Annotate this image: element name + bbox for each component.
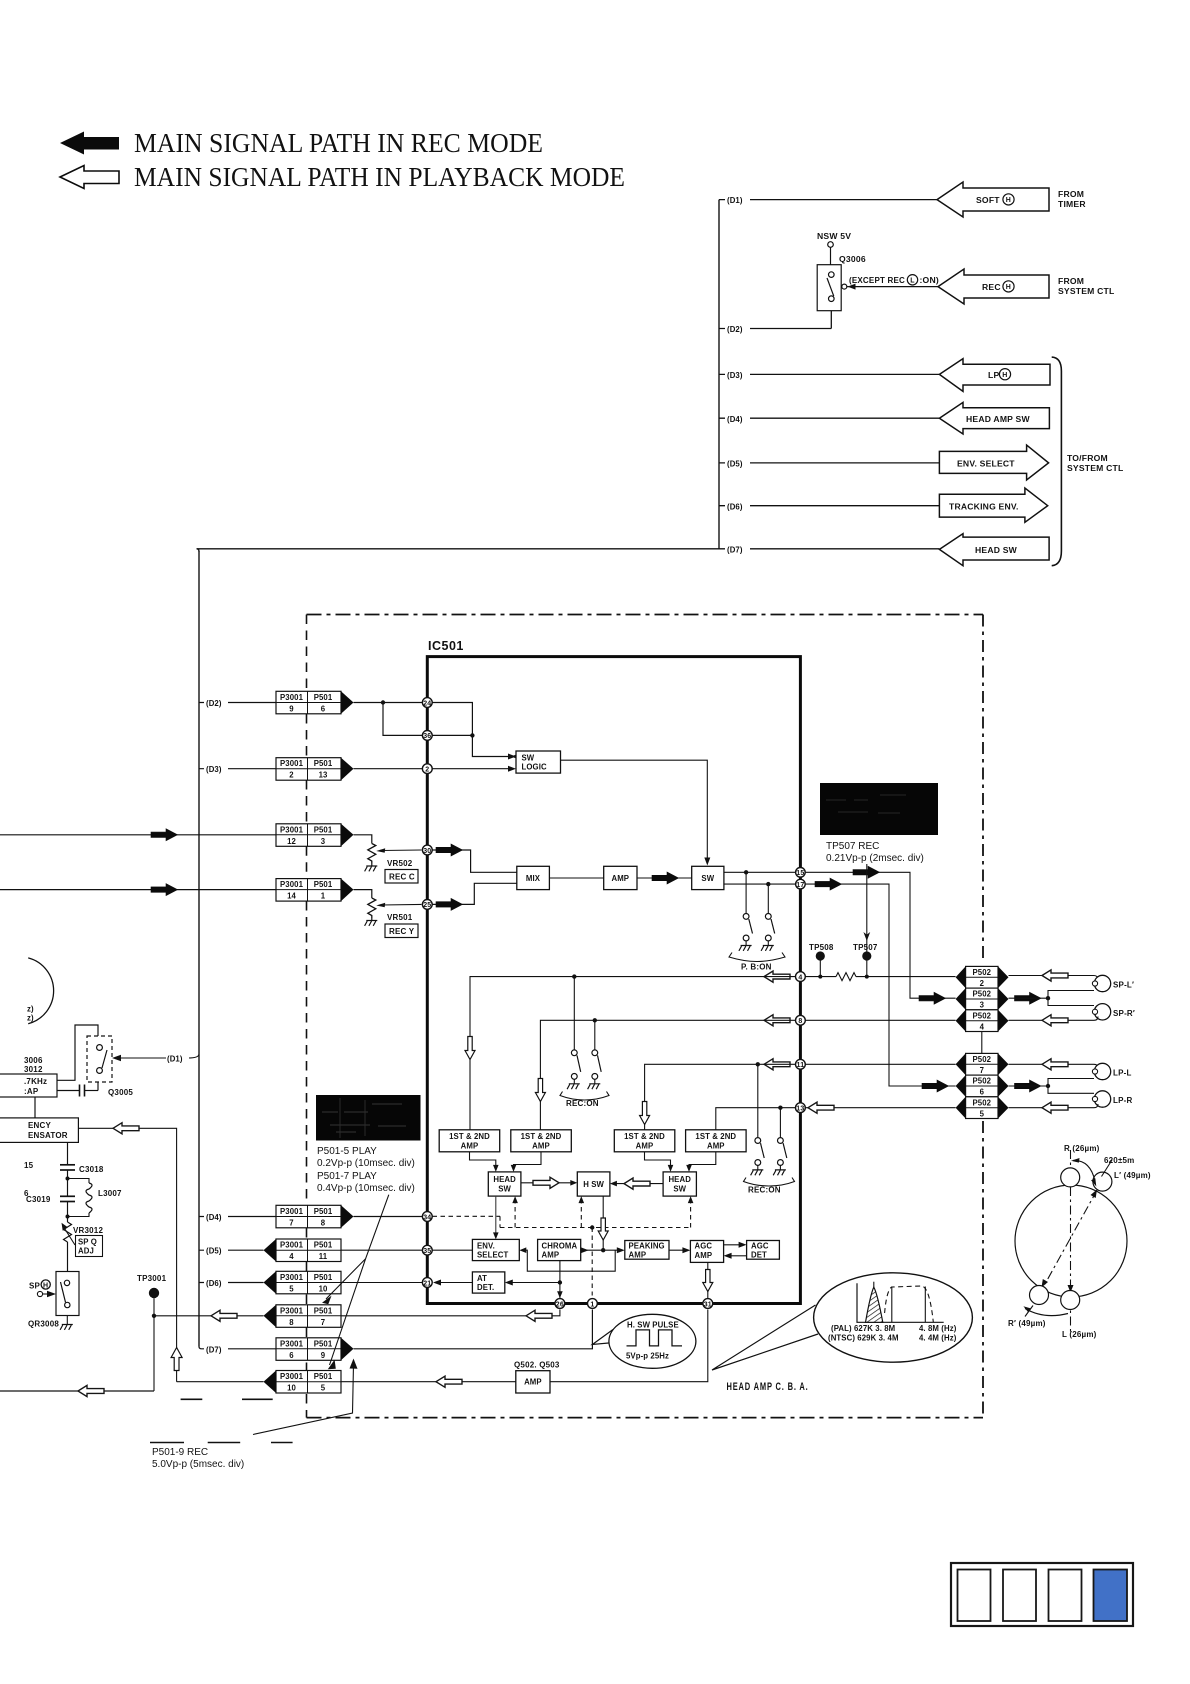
partial bubble left edge [28, 958, 53, 1024]
pin 30 [422, 845, 432, 855]
svg-text:(D1): (D1) [727, 196, 743, 205]
svg-text:1: 1 [590, 1301, 594, 1308]
junction rec switch 2b [778, 1106, 782, 1110]
playback arrow compensator wire [113, 1123, 139, 1134]
svg-text:PEAKING: PEAKING [629, 1242, 665, 1251]
block AGC AMP [690, 1241, 723, 1263]
block frequency compensator [0, 1118, 78, 1143]
board box right edge [982, 615, 984, 963]
playback arrow on TP3001 wire [211, 1310, 237, 1321]
dashed net pin34 [433, 1201, 691, 1296]
svg-text:1ST & 2ND: 1ST & 2ND [521, 1132, 562, 1141]
block ENV. SELECT [472, 1239, 519, 1260]
svg-text:P3001: P3001 [280, 1372, 304, 1381]
bracket P.B:ON [729, 953, 785, 962]
svg-text:P3001: P3001 [280, 825, 304, 834]
wire connector to pin1 [354, 1310, 593, 1349]
svg-text:P501-9 REC: P501-9 REC [152, 1447, 208, 1458]
node D1 label [725, 193, 750, 205]
svg-text:12: 12 [287, 837, 296, 846]
photo P501 play [316, 1095, 421, 1141]
svg-text:AMP: AMP [611, 874, 629, 883]
svg-text:L′ (49µm): L′ (49µm) [1114, 1171, 1151, 1180]
svg-text:Q502. Q503: Q502. Q503 [514, 1361, 560, 1370]
variable resistor VR3012 [62, 1222, 104, 1271]
svg-text:SELECT: SELECT [477, 1251, 508, 1260]
rec arrow after pin25 [436, 898, 463, 910]
svg-text:AMP: AMP [461, 1141, 479, 1150]
svg-text:5: 5 [980, 1109, 985, 1118]
connector P502-7 [956, 1053, 1009, 1075]
connector P3001-2 / P501-13 [276, 758, 354, 781]
svg-text:TP507 REC: TP507 REC [826, 841, 879, 852]
svg-text:(NTSC) 629K 3. 4M: (NTSC) 629K 3. 4M [828, 1334, 899, 1343]
svg-text:FROM: FROM [1058, 276, 1084, 286]
wire P502-3 split to heads [1009, 991, 1095, 1006]
pin 2 [422, 764, 432, 774]
svg-text:(D2): (D2) [727, 325, 743, 334]
wire chroma rec in (left edge) [0, 834, 276, 836]
svg-text:H: H [1006, 284, 1011, 291]
svg-text:Q3005: Q3005 [108, 1088, 133, 1097]
svg-text:C3018: C3018 [79, 1165, 104, 1174]
svg-text:P501: P501 [314, 1339, 333, 1348]
svg-text:TRACKING ENV.: TRACKING ENV. [949, 502, 1019, 512]
wire pin11 interior to amp3 [645, 1064, 796, 1130]
svg-text:1ST & 2ND: 1ST & 2ND [624, 1132, 665, 1141]
svg-text:P502: P502 [972, 1077, 991, 1086]
svg-text:620±5m: 620±5m [1104, 1156, 1135, 1165]
svg-text:z): z) [27, 1005, 34, 1014]
svg-text:5.0Vp-p (5msec. div): 5.0Vp-p (5msec. div) [152, 1459, 244, 1470]
wire connector to VR502 [354, 835, 372, 844]
svg-text:(D6): (D6) [206, 1279, 222, 1288]
rec arrow after pin30 [436, 844, 463, 856]
signal arrow HEAD AMP SW (left) [939, 402, 1049, 434]
connector P502-5 [956, 1097, 1009, 1119]
wire D2 row [719, 311, 831, 329]
svg-text:P3001: P3001 [280, 1241, 304, 1250]
svg-text:SP-R′: SP-R′ [1113, 1009, 1135, 1018]
variable resistor VR501 [365, 898, 413, 926]
svg-text:P. B:ON: P. B:ON [741, 963, 772, 972]
capacitor C3018 [60, 1142, 104, 1195]
svg-text:TIMER: TIMER [1058, 199, 1086, 209]
wire trap to Q3005 upper [57, 1025, 98, 1080]
svg-text:ENCY: ENCY [28, 1121, 51, 1130]
svg-text:(D7): (D7) [727, 546, 743, 555]
svg-text:LP: LP [988, 370, 999, 380]
svg-text:7: 7 [980, 1066, 984, 1075]
svg-text:REC:ON: REC:ON [566, 1099, 599, 1108]
transistor switch Q3006 [817, 254, 866, 311]
svg-text:13: 13 [319, 771, 328, 780]
svg-text:LP-L: LP-L [1113, 1069, 1132, 1078]
block AMP [604, 866, 637, 889]
svg-text:P501: P501 [314, 1207, 333, 1216]
wire video node to env select (Z path) [525, 1250, 616, 1271]
pin 31 [703, 1299, 713, 1309]
playback arrow left of pin8 [764, 1015, 790, 1026]
rec arrow pin15 wire [853, 866, 880, 878]
svg-text:TO/FROM: TO/FROM [1067, 453, 1108, 463]
svg-text:(D3): (D3) [206, 765, 222, 774]
wire D6 row [719, 505, 939, 507]
playback arrow bottom left [78, 1385, 104, 1396]
svg-text:NSW 5V: NSW 5V [817, 231, 851, 241]
junction pin36 path [470, 733, 474, 737]
capacitor C3019 [26, 1195, 75, 1222]
svg-text:AGC: AGC [695, 1242, 713, 1251]
wire pin11 to P502-7 [806, 1063, 956, 1065]
block 7KHz trap [0, 1074, 57, 1097]
svg-text:Q3006: Q3006 [839, 254, 866, 264]
block SW [692, 866, 724, 889]
svg-text:3012: 3012 [24, 1065, 43, 1074]
head R' [1030, 1286, 1049, 1305]
bracket REC:ON 1 [560, 1092, 609, 1101]
wire connector to pin2 [354, 768, 423, 770]
svg-text:(D4): (D4) [727, 415, 743, 424]
wire P501-5 to freq compensator riser [177, 1381, 264, 1383]
wire to rec switch 1b [594, 1020, 596, 1050]
svg-text:3006: 3006 [24, 1056, 43, 1065]
wire bottom left out [0, 1390, 154, 1392]
signal arrow SOFT H (left) [937, 182, 1049, 217]
wire trap to compensator [34, 1097, 36, 1118]
svg-text:P501-7 PLAY: P501-7 PLAY [317, 1171, 377, 1182]
wiper wire VR501 to pin25 [376, 903, 421, 908]
svg-text:SW: SW [673, 1185, 686, 1194]
svg-text:14: 14 [287, 892, 296, 901]
playback arrow right of pin13 [808, 1102, 834, 1113]
svg-text:L: L [910, 278, 915, 285]
svg-text:2: 2 [980, 979, 985, 988]
wire amp3 to head sw R [645, 1152, 671, 1169]
svg-text:AMP: AMP [636, 1141, 654, 1150]
connector P3001-12 / P501-3 [276, 824, 354, 847]
rec arrow after P502-3 [1015, 992, 1042, 1004]
wire D7 to connector [199, 1347, 276, 1349]
svg-text:4: 4 [980, 1022, 985, 1031]
wire pin13 to P502-5 [806, 1107, 956, 1109]
leader P501-5/7 [326, 1195, 389, 1365]
signal arrow REC H (left) [938, 269, 1049, 304]
svg-text:DET: DET [751, 1251, 767, 1260]
pin 11 [796, 1059, 806, 1069]
wire D5 to connector [199, 1249, 264, 1251]
rec arrow after P502-6 [1015, 1080, 1042, 1092]
connector P3001-7 / P501-8 [276, 1205, 354, 1228]
block 1ST & 2ND AMP 1 [439, 1130, 500, 1152]
connector P3001-9 / P501-6 [276, 691, 354, 714]
svg-text:1ST & 2ND: 1ST & 2ND [695, 1132, 736, 1141]
wire connector to pin24 and pin36 [354, 703, 423, 736]
signal arrow ENV. SELECT (right) [939, 445, 1048, 480]
switch P.B 1 [743, 914, 752, 941]
wire head sw R to H SW [615, 1183, 663, 1185]
wire pin36 stub [433, 734, 473, 736]
wire connector to VR501 [354, 890, 372, 898]
drum circle [1015, 1185, 1127, 1297]
block 1ST & 2ND AMP 2 [511, 1130, 572, 1152]
switch QR3008 [28, 1272, 79, 1329]
svg-text:4: 4 [798, 974, 802, 981]
svg-text:17: 17 [796, 882, 804, 889]
svg-text:7: 7 [321, 1318, 325, 1327]
bracket TO/FROM SYSTEM CTL [1052, 357, 1062, 566]
legend PLAYBACK mode arrow [60, 166, 119, 189]
svg-text:SP: SP [29, 1282, 41, 1291]
rec arrow pin17 wire [815, 878, 842, 890]
pin 8 [796, 1015, 806, 1025]
svg-text:5: 5 [289, 1285, 294, 1294]
head R [1061, 1168, 1080, 1187]
svg-text:P501: P501 [314, 880, 333, 889]
label SP H with circle [29, 1280, 56, 1297]
pin 34 [422, 1212, 432, 1222]
pin 1 [588, 1299, 598, 1309]
svg-text:15: 15 [796, 870, 804, 877]
pin 21 [422, 1278, 432, 1288]
svg-text:(D3): (D3) [727, 371, 743, 380]
svg-text:6: 6 [980, 1088, 985, 1097]
junction dot [381, 700, 385, 704]
playback down arrow below H SW [598, 1218, 608, 1240]
node D4 label [725, 412, 750, 424]
inductor L3007 [68, 1179, 123, 1217]
svg-text:REC: REC [982, 282, 1001, 292]
leader P501-9 [253, 1364, 354, 1435]
value label SP Q ADJ [76, 1236, 103, 1257]
svg-text:z): z) [27, 1014, 34, 1023]
pin 24 [422, 698, 432, 708]
wire SW to pin15 [724, 871, 795, 873]
svg-text:11: 11 [796, 1062, 804, 1069]
svg-text:HEAD: HEAD [493, 1175, 516, 1184]
node D7 label [725, 543, 750, 555]
svg-text:10: 10 [319, 1285, 328, 1294]
playback arrow near pin26 [526, 1310, 552, 1321]
stray dash fragments [150, 1399, 293, 1442]
ground REC:ON 1a [567, 1079, 580, 1089]
wire to P.B switch 1 [745, 872, 747, 913]
svg-text:AMP: AMP [524, 1378, 542, 1387]
svg-text:36: 36 [423, 733, 431, 740]
svg-text:TP508: TP508 [809, 943, 834, 952]
node D6 label [725, 500, 750, 512]
svg-text:34: 34 [423, 1214, 431, 1221]
head L' [1093, 1172, 1112, 1191]
svg-text:MAIN SIGNAL PATH IN REC MODE: MAIN SIGNAL PATH IN REC MODE [134, 128, 543, 158]
svg-text:AMP: AMP [695, 1251, 713, 1260]
svg-text:REC:ON: REC:ON [748, 1186, 781, 1195]
wire connector to pin21 [341, 1282, 423, 1284]
wire D2 to connector [199, 702, 276, 704]
switch REC:ON 2b [778, 1138, 787, 1166]
svg-text:P3001: P3001 [280, 693, 304, 702]
junction C3019/L3007 [66, 1177, 70, 1181]
svg-text:QR3008: QR3008 [28, 1320, 59, 1329]
wiper wire VR502 to pin30 [376, 848, 421, 853]
connector P3001-5 / P501-10 (out) [264, 1271, 342, 1294]
bubble H.SW PULSE [592, 1314, 696, 1368]
bubble spectrum [814, 1273, 973, 1362]
svg-text:H: H [1006, 197, 1011, 204]
connector P502-6 [956, 1075, 1009, 1097]
block AT DET [472, 1272, 504, 1293]
wire P502-7 to head LP-L [1009, 1063, 1095, 1065]
svg-text:.7KHz: .7KHz [24, 1077, 47, 1086]
svg-text:R′ (49µm): R′ (49µm) [1008, 1319, 1046, 1328]
wire amp2 to head sw L [514, 1152, 542, 1169]
node NSW 5V [817, 231, 851, 265]
svg-text:(D5): (D5) [727, 460, 743, 469]
wire REC arrow to Q3006 [847, 284, 938, 290]
switch P.B 2 [765, 914, 774, 941]
wire pin13 interior to amp4 [716, 1108, 795, 1130]
svg-text:15: 15 [24, 1161, 34, 1170]
signal arrow LP H (left) [939, 359, 1050, 392]
wire head sw L to H SW [521, 1182, 572, 1184]
pin 13 [796, 1103, 806, 1113]
block PEAKING AMP [625, 1241, 669, 1260]
svg-text:P501: P501 [314, 825, 333, 834]
pin 15 [796, 868, 806, 878]
ground QR3008 [60, 1316, 73, 1330]
block HEAD SW right [663, 1172, 696, 1196]
playback down arrow to pin31 [703, 1270, 713, 1292]
connector P502-3 [956, 988, 1009, 1010]
playback down arrow amp2 [535, 1079, 545, 1102]
head L [1061, 1291, 1080, 1310]
svg-text:HEAD SW: HEAD SW [975, 545, 1018, 555]
wire P502-4 to P502-7 [981, 1032, 983, 1054]
svg-text:LP-R: LP-R [1113, 1096, 1132, 1105]
svg-text:AMP: AMP [629, 1251, 647, 1260]
svg-text:P502: P502 [972, 1098, 991, 1107]
head LP-L [1092, 1063, 1131, 1079]
svg-text:P3001: P3001 [280, 880, 304, 889]
svg-text:SW: SW [498, 1185, 511, 1194]
svg-text:P3001: P3001 [280, 1306, 304, 1315]
pin 36 [422, 731, 432, 741]
head LP-R [1092, 1091, 1132, 1107]
svg-text:AMP: AMP [532, 1141, 550, 1150]
svg-text:9: 9 [289, 705, 294, 714]
svg-text:13: 13 [796, 1106, 804, 1113]
svg-text:R (26µm): R (26µm) [1064, 1144, 1100, 1153]
svg-text:8: 8 [321, 1219, 326, 1228]
pin 4 [796, 972, 806, 982]
wire D7 row [197, 548, 940, 550]
svg-text:MIX: MIX [526, 874, 541, 883]
arc bottom [1025, 1309, 1068, 1316]
playback arrow left of pin4 [764, 971, 790, 982]
svg-text:(D4): (D4) [206, 1213, 222, 1222]
svg-text:P3001: P3001 [280, 1339, 304, 1348]
wire to rec switch 1a [573, 977, 575, 1050]
wire pin24 to SW LOGIC [433, 703, 512, 757]
svg-text:P501: P501 [314, 693, 333, 702]
svg-text:AT: AT [477, 1274, 487, 1283]
connector P502-2 [956, 966, 1009, 988]
svg-text:2: 2 [289, 771, 294, 780]
svg-text:P502: P502 [972, 1011, 991, 1020]
value label REC C [385, 870, 418, 884]
board box top edge [307, 614, 984, 616]
ground P.B 1 [739, 941, 752, 951]
svg-text:H SW: H SW [583, 1180, 604, 1189]
wire MIX to AMP [549, 877, 603, 879]
bracket REC:ON 2 [744, 1178, 795, 1187]
svg-text:REC C: REC C [389, 873, 415, 882]
wire connector to pin34 [354, 1216, 423, 1218]
wire D3 to connector [199, 768, 276, 770]
svg-text:4. 4M (Hz): 4. 4M (Hz) [919, 1334, 957, 1343]
wire H SW down to chroma junction [602, 1196, 604, 1250]
wire peaking to AGC amp [669, 1249, 685, 1251]
svg-text:TP507: TP507 [853, 943, 878, 952]
svg-text:ENV.: ENV. [477, 1241, 495, 1250]
svg-text:H. SW PULSE: H. SW PULSE [627, 1321, 679, 1330]
test point TP3001 [137, 1274, 167, 1391]
switch Q3005 (dashed) [87, 1036, 133, 1097]
svg-text:P502: P502 [972, 1055, 991, 1064]
svg-text:21: 21 [423, 1280, 431, 1287]
svg-text:(D5): (D5) [206, 1247, 222, 1256]
block SW LOGIC [516, 751, 561, 773]
wire D5 row [719, 462, 939, 464]
svg-text:P502: P502 [972, 990, 991, 999]
switch REC:ON 2a [755, 1138, 764, 1166]
svg-text:11: 11 [319, 1252, 328, 1261]
wire P502-5 to head LP-R [1009, 1104, 1099, 1108]
playback down arrow amp1 [465, 1037, 475, 1060]
svg-text:P3001: P3001 [280, 1273, 304, 1282]
wire D1 to Q3005 [112, 1052, 199, 1064]
wire AGC det to AGC amp (bottom) [731, 1255, 747, 1257]
svg-text:(D2): (D2) [206, 699, 222, 708]
svg-text:24: 24 [423, 700, 431, 707]
wire D3 row [719, 373, 939, 375]
svg-text:REC Y: REC Y [389, 927, 415, 936]
photo TP507 REC [820, 783, 938, 835]
svg-text:SYSTEM CTL: SYSTEM CTL [1067, 463, 1123, 473]
svg-text:0.2Vp-p (10msec. div): 0.2Vp-p (10msec. div) [317, 1158, 415, 1169]
wire D4 row [719, 417, 939, 419]
rec arrow AMP to SW [652, 872, 679, 884]
block CHROMA AMP [538, 1239, 581, 1260]
svg-text:P3001: P3001 [280, 759, 304, 768]
svg-text:0.21Vp-p (2msec. div): 0.21Vp-p (2msec. div) [826, 853, 924, 864]
svg-text:P501: P501 [314, 759, 333, 768]
left bus vertical [198, 551, 200, 1347]
wire amp1 to head sw L [470, 1152, 496, 1169]
svg-text:4. 8M (Hz): 4. 8M (Hz) [919, 1324, 957, 1333]
svg-text:10: 10 [287, 1384, 296, 1393]
wire AT DET to pin21 [438, 1282, 472, 1284]
block AGC DET [747, 1241, 780, 1260]
wire to rec switch 2a [757, 1064, 759, 1137]
svg-text:(D6): (D6) [727, 503, 743, 512]
wire TP3001 to pin26 [154, 1310, 560, 1316]
playback down arrow amp3 [640, 1102, 650, 1125]
svg-text:ENSATOR: ENSATOR [28, 1131, 68, 1140]
svg-text:(EXCEPT REC: (EXCEPT REC [849, 275, 905, 285]
junction to PB switch 1 [744, 870, 748, 874]
board box bottom edge [307, 1417, 984, 1419]
